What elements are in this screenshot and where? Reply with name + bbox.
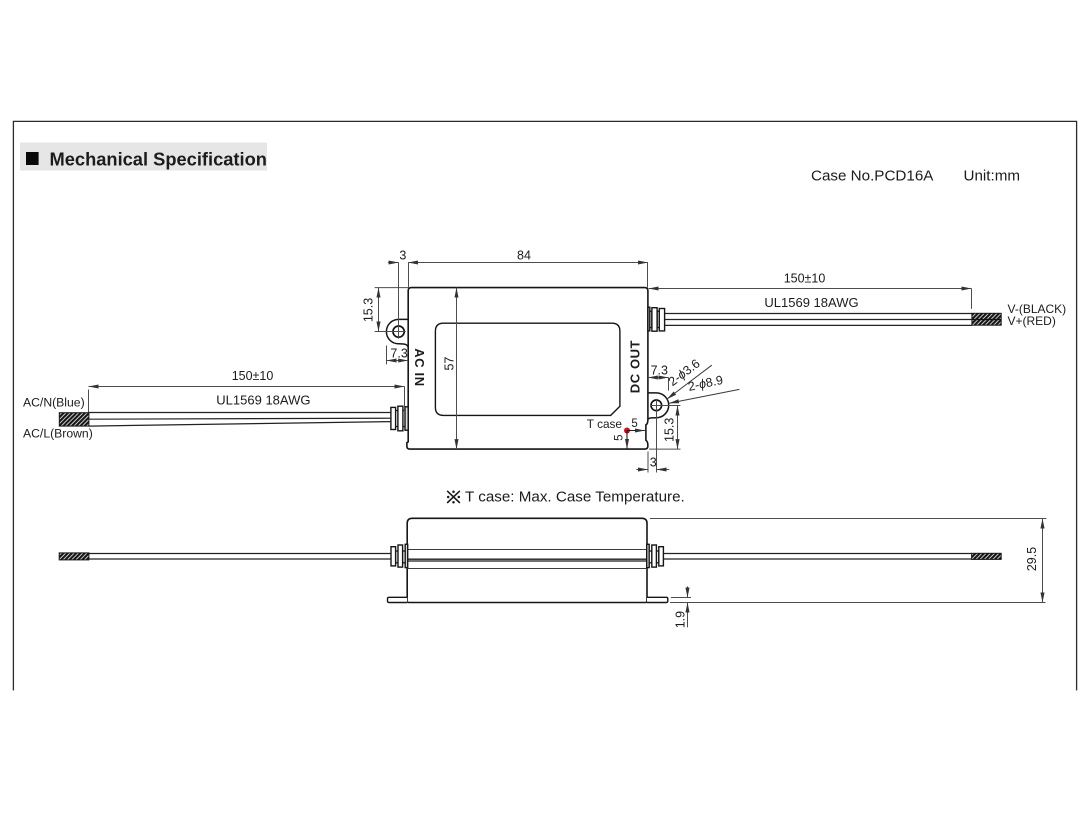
svg-text:AC IN: AC IN [412,348,427,386]
svg-text:84: 84 [517,249,531,263]
dim 3 bottom: extension line (body edge) [647,452,649,473]
dim 84: dimension line [408,262,648,264]
input wire middle outline [89,418,391,419]
svg-text:29.5: 29.5 [1025,547,1039,571]
right cable bushing rib outer [659,309,664,331]
right hole vertical centerline / ext of bottom dim 3 [656,399,658,473]
title square bullet [26,152,39,165]
left cable bushing neck 1 [395,411,398,427]
dim 7.3 left: extension line [386,346,388,365]
output wire bottom outline (side view) [663,558,971,560]
svg-text:7.3: 7.3 [390,346,407,360]
left hole vertical centerline / ext of dim 3 [398,263,400,339]
dim 3 top: extension line (body edge) [408,263,410,289]
leader 2-phi8.9 [669,389,739,403]
T case point (red dot) [624,428,630,434]
svg-text:7.3: 7.3 [651,364,668,378]
svg-text:Case No.PCD16A: Case No.PCD16A [811,168,934,185]
right cable bushing rib middle [652,308,657,332]
dim 1.9: extension tick top [671,597,691,599]
dim 29.5: extension line bottom [670,602,1046,604]
dim 84: extension line right [647,263,649,288]
input wire top outline [89,412,391,414]
dim 57: dimension line [456,288,458,450]
svg-text:1.9: 1.9 [674,611,688,628]
svg-text:T case: T case [587,417,623,431]
left mounting ear [386,319,408,347]
note reference mark (komejirushi) [448,491,460,502]
dim 1.9: upper arrow [687,586,689,597]
dim 7.3 left: dimension line [387,360,409,362]
dim 15.3 left: dimension line [378,288,380,332]
dim 29.5: extension line top [650,518,1047,520]
right cable bushing neck 1 [650,311,652,327]
right bushing neck 2 (side view) [656,551,659,563]
right bushing rib outer (side view) [659,547,664,566]
svg-text:5: 5 [614,434,626,440]
case seam line 2 (upper of thick pair) [407,558,647,560]
left cable bushing rib inner [405,407,408,430]
right cable bushing neck 2 [657,311,659,327]
output wire stripped end (side view, hatched) [972,553,1002,559]
svg-text:3: 3 [650,455,657,469]
svg-text:AC/L(Brown): AC/L(Brown) [23,427,93,441]
right bushing rib inner (side view) [647,544,650,567]
svg-text:V+(RED): V+(RED) [1008,314,1056,328]
dim 7.3 right: dimension line [648,377,669,379]
svg-text:Mechanical Specification: Mechanical Specification [50,149,267,170]
output wire middle line over hatch [972,319,1001,321]
case seam line 1 [407,549,647,551]
right cable bushing rib inner [648,307,650,331]
case body outline (side view) [407,518,647,602]
dim 3 bottom: right arrow [657,469,670,471]
svg-text:15.3: 15.3 [362,298,376,322]
dim 1.9: lower arrow [687,603,689,628]
left bushing rib outer (side view) [391,547,396,566]
dim 3 bottom: left arrow [636,469,648,471]
right mounting flange [647,597,668,602]
svg-text:DC OUT: DC OUT [628,340,643,393]
right hole horizontal centerline / ext of dim 15.3 [650,405,680,407]
dim 3 top: arrow [388,262,399,264]
svg-text:T case: Max. Case Temperature.: T case: Max. Case Temperature. [465,489,685,506]
svg-text:3: 3 [399,249,406,263]
svg-text:Unit:mm: Unit:mm [964,168,1021,185]
left bushing rib middle (side view) [398,545,403,567]
svg-text:150±10: 150±10 [784,271,826,285]
output wire stripped end (hatched) [972,313,1001,325]
svg-text:UL1569 18AWG: UL1569 18AWG [216,393,310,408]
case seam line 3 (lower of thick pair) [407,560,647,562]
inner label recess rectangle [435,323,620,415]
dim 7.3 right: extension line [668,378,670,391]
case body outline (top view) [407,288,648,450]
left bushing rib inner (side view) [405,544,408,567]
left bushing neck 1 (side view) [396,551,399,563]
left cable bushing rib middle [398,406,403,431]
dim 150±10 right: dimension line [649,288,972,290]
input wire stripped end (hatched) [59,413,89,426]
input wire bottom outline (side view) [59,558,391,560]
svg-text:5: 5 [631,418,637,430]
dim 150±10 right: extension line right [971,289,973,309]
right bushing neck 1 (side view) [649,551,652,563]
input wire stripped end (side view, hatched) [59,553,89,560]
dim 15.3 right: extension line bottom [649,448,681,450]
left hole horizontal centerline / ext of dim 15.3 [375,331,406,333]
svg-text:57: 57 [442,357,456,371]
T case dim 5 horizontal: line [627,430,645,432]
dim 150±10 left: extension line left [88,390,90,413]
leader 2-phi3.6 [667,365,712,399]
output wire top outline (side view) [663,553,971,555]
left bushing neck 2 (side view) [403,551,406,563]
dim 15.3 right: dimension line [677,406,679,450]
svg-text:150±10: 150±10 [232,369,274,383]
input wire top outline (side view) [59,553,391,555]
svg-text:15.3: 15.3 [662,418,676,442]
output wire top outline [665,313,972,315]
output wire middle outline [665,319,972,321]
left cable bushing rib outer [391,407,396,429]
title highlight bar [20,143,267,171]
case seam line 4 [407,568,647,570]
svg-text:AC/N(Blue): AC/N(Blue) [23,396,85,410]
left ear screw hole [393,326,404,337]
svg-text:UL1569 18AWG: UL1569 18AWG [764,295,858,310]
dim 150±10 left: dimension line [89,386,405,388]
left mounting flange [388,597,408,602]
right mounting ear [647,393,669,421]
T case dim 5 vertical: line [626,431,628,449]
dim 29.5: dimension line [1042,519,1044,603]
output wire bottom outline [665,324,972,326]
left cable bushing neck 2 [403,411,406,427]
dim 15.3 left: extension line top [375,287,409,289]
page frame (top, left, right borders) [13,121,1076,690]
right ear screw hole [651,400,662,411]
right bushing rib middle (side view) [652,545,657,567]
input wire bottom outline [89,422,391,427]
dim 150±10 left: extension line right [404,387,406,412]
